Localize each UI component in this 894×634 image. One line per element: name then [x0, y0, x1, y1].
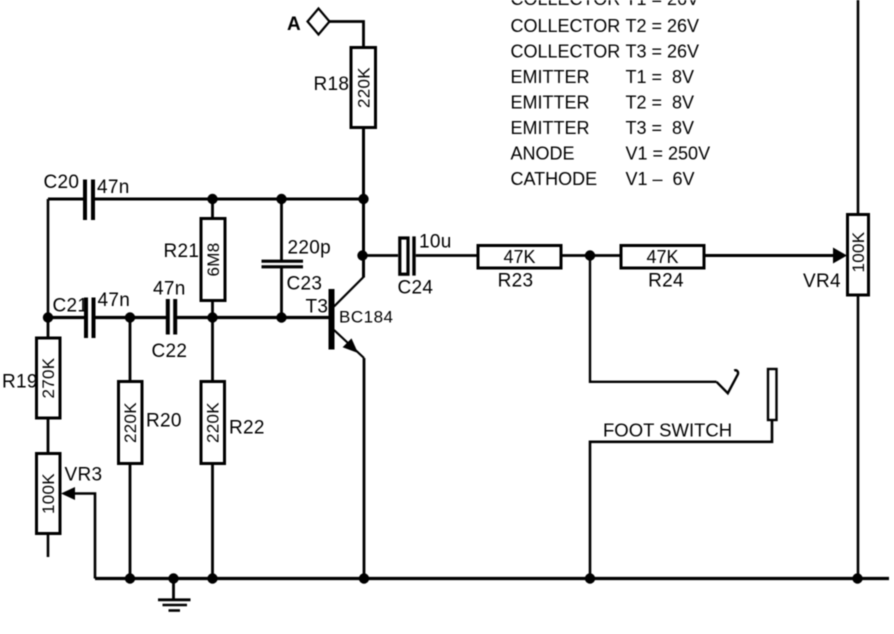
svg-text:T2 = 26V: T2 = 26V [626, 16, 700, 36]
svg-text:ANODE: ANODE [511, 144, 575, 164]
junction bottom bus / R22 [207, 573, 217, 583]
wire R20 top stub [129, 318, 132, 383]
capacitor C21 47n [53, 290, 131, 338]
voltage table line 7 ANODE V1 [511, 144, 711, 164]
wire top bus right segment [95, 198, 364, 201]
wire right vertical top [857, 0, 860, 215]
wire right vertical bottom [857, 295, 860, 579]
junction mid bus / C23 [276, 312, 286, 322]
resistor R21 6M8 [164, 219, 226, 301]
capacitor C23 220p [262, 238, 331, 295]
capacitor C20 47n [44, 172, 130, 220]
junction mid bus / left branch R19 [43, 312, 53, 322]
resistor R18 220K [314, 48, 376, 128]
svg-text:C24: C24 [398, 278, 434, 299]
wire C23 bottom stub [280, 267, 283, 318]
svg-text:R24: R24 [648, 271, 684, 292]
svg-text:C20: C20 [44, 172, 80, 193]
wire T3 emitter vertical [363, 358, 366, 579]
capacitor C24 10u [398, 232, 452, 299]
svg-text:R20: R20 [146, 411, 182, 432]
svg-text:V1 – 6V: V1 – 6V [626, 169, 695, 189]
svg-text:A: A [287, 14, 301, 35]
svg-text:BC184: BC184 [339, 308, 393, 327]
svg-text:100K: 100K [849, 231, 868, 272]
resistor R19 270K [2, 338, 60, 418]
svg-text:FOOT SWITCH: FOOT SWITCH [603, 420, 732, 441]
voltage table line 3 COLLECTOR T3 [511, 42, 700, 62]
voltage table line 1 (clipped) COLLECTOR T1 [511, 0, 700, 9]
junction top bus / R18 [358, 194, 368, 204]
transistor T3 BC184 [306, 277, 394, 358]
wire collector node to C24 [363, 254, 399, 257]
svg-text:EMITTER: EMITTER [511, 67, 590, 87]
junction top bus / R21 [207, 194, 217, 204]
junction bottom bus / T3 emitter [359, 573, 369, 583]
wire C24 to R23 [416, 254, 478, 257]
junction bottom bus / foot switch [585, 573, 595, 583]
wire left branch vertical [47, 199, 50, 318]
wire C23 top stub [280, 199, 283, 261]
wire VR3 bottom stub [47, 534, 50, 558]
wire R22 top stub [211, 318, 214, 383]
svg-text:V1 = 250V: V1 = 250V [626, 144, 711, 164]
svg-text:COLLECTOR: COLLECTOR [511, 42, 621, 62]
wire mid bus segment 2 [96, 316, 167, 319]
wire mid bus segment 1 [48, 316, 85, 319]
svg-text:T3 = 8V: T3 = 8V [626, 118, 695, 138]
svg-text:47n: 47n [97, 177, 130, 198]
resistor R23 47K [478, 246, 561, 292]
voltage table line 2 COLLECTOR T2 [511, 16, 700, 36]
svg-text:10u: 10u [419, 232, 452, 253]
svg-text:C21: C21 [53, 296, 89, 317]
svg-text:T1 = 26V: T1 = 26V [626, 0, 700, 9]
capacitor C22 47n [152, 279, 188, 363]
ground symbol [158, 579, 191, 611]
junction bottom bus / ground [168, 573, 178, 583]
wire R22 bottom stub [211, 464, 214, 579]
wire R19 to VR3 [47, 418, 50, 454]
junction R23 / R24 / foot switch [585, 250, 595, 260]
wire junction to R24 [590, 254, 621, 257]
svg-text:R23: R23 [498, 271, 534, 292]
wire foot switch return to bottom bus [590, 420, 772, 579]
svg-text:C22: C22 [152, 341, 188, 362]
svg-text:VR4: VR4 [803, 271, 841, 292]
potentiometer VR4 100K [803, 215, 869, 296]
svg-text:COLLECTOR: COLLECTOR [511, 16, 621, 36]
svg-text:EMITTER: EMITTER [511, 118, 590, 138]
voltage table line 8 CATHODE V1 [511, 169, 695, 189]
resistor R20 220K [119, 382, 182, 464]
svg-text:47K: 47K [646, 247, 678, 267]
junction bottom bus / R20 [125, 573, 135, 583]
wire R23 to junction [561, 254, 590, 257]
junction mid bus / R20 [125, 312, 135, 322]
wire R21 bottom stub [211, 300, 214, 318]
junction mid bus / R22 [207, 312, 217, 322]
svg-text:220K: 220K [121, 402, 140, 443]
svg-text:EMITTER: EMITTER [511, 93, 590, 113]
node A connector [287, 9, 330, 36]
VR4 wiper arrow [833, 248, 847, 264]
voltage table line 4 EMITTER T1 [511, 67, 695, 87]
svg-text:270K: 270K [39, 357, 58, 398]
resistor R22 220K [201, 382, 265, 464]
svg-text:220p: 220p [288, 238, 331, 259]
wire foot switch branch down and across [590, 260, 717, 382]
svg-text:220K: 220K [204, 402, 223, 443]
svg-text:C23: C23 [287, 274, 323, 295]
svg-text:T1 = 8V: T1 = 8V [626, 67, 695, 87]
VR3 wiper arrow and wire to bottom bus [61, 487, 95, 579]
wire R19 top stub [47, 318, 50, 339]
wire bottom bus [95, 577, 889, 580]
svg-text:R18: R18 [314, 74, 350, 95]
svg-text:R21: R21 [164, 241, 200, 262]
svg-text:R19: R19 [2, 372, 38, 393]
svg-text:T3: T3 [306, 297, 329, 318]
junction collector node / C24 [357, 250, 367, 260]
svg-text:VR3: VR3 [65, 465, 103, 486]
foot switch fixed contact [768, 369, 777, 420]
wire mid bus segment 3 [177, 316, 329, 319]
voltage table line 6 EMITTER T3 [511, 118, 695, 138]
wire R24 to VR4 [704, 254, 834, 257]
svg-text:R22: R22 [229, 418, 265, 439]
wire node A to R18 top [330, 22, 364, 49]
svg-text:COLLECTOR: COLLECTOR [511, 0, 621, 9]
junction bottom bus / right vertical [852, 573, 862, 583]
potentiometer VR3 100K [37, 454, 103, 534]
resistor R24 47K [621, 246, 704, 292]
wire R18 bottom to collector node [362, 128, 365, 278]
svg-text:T3 = 26V: T3 = 26V [626, 42, 700, 62]
svg-text:47n: 47n [153, 279, 186, 300]
svg-text:CATHODE: CATHODE [511, 169, 598, 189]
svg-text:47K: 47K [503, 247, 535, 267]
voltage table line 5 EMITTER T2 [511, 93, 695, 113]
junction top bus / C23 [276, 194, 286, 204]
svg-text:6M8: 6M8 [204, 243, 223, 277]
svg-text:100K: 100K [39, 473, 58, 514]
foot switch lever contact [717, 370, 739, 393]
svg-text:47n: 47n [98, 290, 131, 311]
svg-text:220K: 220K [354, 67, 373, 108]
wire top bus left segment [48, 198, 84, 201]
wire R21 top stub [211, 199, 214, 219]
wire R20 bottom stub [129, 464, 132, 579]
svg-text:T2 = 8V: T2 = 8V [626, 93, 695, 113]
